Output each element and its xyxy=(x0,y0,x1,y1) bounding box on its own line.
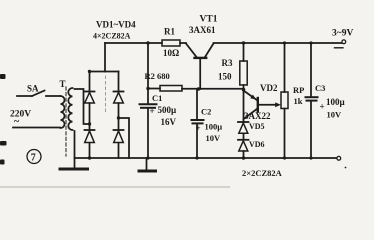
svg-text:VD5: VD5 xyxy=(249,122,265,131)
svg-text:2×2CZ82A: 2×2CZ82A xyxy=(242,168,283,178)
svg-text:VD1~VD4: VD1~VD4 xyxy=(96,20,136,30)
svg-text:R3: R3 xyxy=(222,58,233,68)
svg-text:10V: 10V xyxy=(327,110,343,120)
svg-text:C2: C2 xyxy=(201,107,211,117)
svg-text:+: + xyxy=(320,102,325,112)
svg-text:VT1: VT1 xyxy=(200,15,218,25)
svg-text:+: + xyxy=(196,123,201,133)
svg-text:1k: 1k xyxy=(294,96,303,106)
svg-text:3AX61: 3AX61 xyxy=(189,25,216,35)
svg-text:16V: 16V xyxy=(161,117,177,127)
svg-text:3AX22: 3AX22 xyxy=(244,111,271,121)
svg-text:VD2: VD2 xyxy=(260,83,278,93)
svg-text:VD6: VD6 xyxy=(249,140,265,149)
svg-text:R2 680: R2 680 xyxy=(145,71,170,81)
svg-text:C3: C3 xyxy=(315,83,325,93)
svg-text:SA: SA xyxy=(27,84,39,94)
svg-text:~: ~ xyxy=(14,117,20,128)
svg-text:500µ: 500µ xyxy=(158,105,178,115)
svg-text:3~9V: 3~9V xyxy=(332,29,353,39)
svg-text:100µ: 100µ xyxy=(205,122,223,132)
svg-text:150: 150 xyxy=(218,72,232,82)
svg-text:RP: RP xyxy=(293,85,304,95)
svg-text:T: T xyxy=(60,79,66,89)
svg-text:+: + xyxy=(150,106,155,116)
svg-text:7: 7 xyxy=(31,153,36,164)
svg-text:4×2CZ82A: 4×2CZ82A xyxy=(93,32,131,41)
svg-text:100µ: 100µ xyxy=(326,97,346,107)
svg-text:10Ω: 10Ω xyxy=(163,48,179,58)
svg-text:C1: C1 xyxy=(152,93,162,103)
svg-text:10V: 10V xyxy=(206,133,222,143)
svg-text:R1: R1 xyxy=(164,27,175,37)
